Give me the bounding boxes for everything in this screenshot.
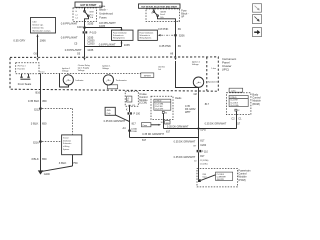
svg-text:Wiring Systems: Wiring Systems bbox=[140, 37, 152, 40]
BCM drop wire bbox=[236, 111, 238, 128]
wire 0.8 PNK 39 bbox=[175, 21, 177, 57]
svg-text:(BCM): (BCM) bbox=[252, 102, 260, 106]
svg-text:650: 650 bbox=[42, 122, 47, 126]
svg-text:B4: B4 bbox=[165, 112, 167, 114]
svg-text:C3: C3 bbox=[177, 21, 179, 23]
svg-text:C1-19 BLU: C1-19 BLU bbox=[217, 174, 224, 176]
PCM input pin bbox=[198, 179, 201, 182]
UI button zoom in bbox=[253, 15, 262, 24]
GRY wire arrow into sub box bbox=[37, 58, 39, 61]
radio dashed box bbox=[151, 96, 173, 119]
svg-text:1035: 1035 bbox=[87, 22, 94, 26]
svg-text:0.8 PPL/WHT: 0.8 PPL/WHT bbox=[65, 48, 82, 52]
internal dashed bus bbox=[39, 73, 141, 75]
svg-text:817: 817 bbox=[205, 103, 210, 106]
svg-text:C200B: C200B bbox=[131, 131, 138, 133]
svg-text:1035: 1035 bbox=[124, 43, 131, 47]
header HOT IN START bbox=[75, 2, 102, 7]
svg-text:0.8 PPL/WHT: 0.8 PPL/WHT bbox=[99, 43, 116, 47]
svg-text:0.35 PNK: 0.35 PNK bbox=[159, 44, 171, 48]
svg-text:0.35 DK GRN/WHT: 0.35 DK GRN/WHT bbox=[174, 140, 196, 143]
cruise control module dashed box bbox=[125, 91, 138, 106]
svg-text:0.35 DK GRN/WHT: 0.35 DK GRN/WHT bbox=[104, 120, 126, 123]
svg-text:817: 817 bbox=[132, 122, 137, 125]
speedometer supply loop bbox=[176, 61, 199, 88]
svg-text:39: 39 bbox=[178, 27, 182, 31]
svg-text:C-4: C-4 bbox=[75, 18, 78, 20]
ground G200 bbox=[38, 170, 44, 174]
svg-text:3 BLK: 3 BLK bbox=[31, 122, 39, 126]
IPC dimmer sub box bbox=[16, 63, 39, 74]
svg-text:Radio: Radio bbox=[175, 98, 182, 100]
svg-text:B16: B16 bbox=[36, 92, 41, 95]
splice junction bbox=[83, 26, 86, 29]
fuse block underhood dashed box bbox=[73, 8, 97, 22]
UI button zoom out bbox=[253, 4, 262, 13]
fuse GAGES 10A bbox=[153, 8, 155, 11]
lower VSS wire to junction bbox=[130, 137, 199, 139]
svg-text:Voltage: Voltage bbox=[62, 70, 70, 73]
svg-text:D2: D2 bbox=[238, 110, 240, 112]
4WD note box bbox=[105, 107, 115, 115]
wire 0.35 DK GRN/WHT 817 from speedometer bbox=[198, 88, 200, 150]
svg-text:Speedometer: Speedometer bbox=[208, 81, 219, 84]
svg-text:S212: S212 bbox=[34, 108, 40, 111]
svg-text:0.35 DK GRN/WHT: 0.35 DK GRN/WHT bbox=[205, 122, 227, 125]
svg-text:(PCM): (PCM) bbox=[238, 178, 246, 182]
svg-text:S206: S206 bbox=[179, 34, 185, 37]
svg-text:817: 817 bbox=[142, 139, 147, 142]
svg-text:Fuse: Fuse bbox=[99, 4, 106, 8]
svg-text:Schematics in: Schematics in bbox=[113, 34, 124, 37]
svg-text:(CCM): (CCM) bbox=[139, 101, 147, 105]
svg-text:WHT: WHT bbox=[185, 111, 191, 114]
svg-text:Prem: Prem bbox=[143, 124, 148, 127]
connector P-100 lower bbox=[128, 112, 130, 114]
instrument panel cluster dashed box bbox=[10, 57, 218, 91]
splice S206 bbox=[174, 34, 177, 37]
CCM drop wire bbox=[129, 106, 131, 112]
svg-text:Tachometer: Tachometer bbox=[116, 79, 127, 82]
horizontal VSS bus wire bbox=[164, 128, 237, 130]
svg-text:Underhood: Underhood bbox=[99, 12, 113, 16]
svg-text:P 100: P 100 bbox=[134, 113, 141, 116]
svg-text:817: 817 bbox=[200, 139, 205, 142]
svg-text:(C2): (C2) bbox=[132, 105, 135, 107]
wire 0.8 PPL/WHT 1035 from fuse bbox=[84, 22, 86, 32]
svg-text:C255: C255 bbox=[231, 90, 236, 92]
svg-text:0.35 DK GRN/WHT: 0.35 DK GRN/WHT bbox=[142, 133, 164, 136]
svg-text:C1 (24 BL): C1 (24 BL) bbox=[200, 164, 208, 166]
splice S212 bbox=[39, 107, 42, 110]
svg-text:C200A: C200A bbox=[131, 127, 138, 130]
power distribution reference box 1 bbox=[112, 30, 134, 40]
header HOT IN RUN BULB TEST AND START bbox=[139, 4, 181, 8]
svg-text:4000 PPM: 4000 PPM bbox=[217, 179, 225, 181]
arrow into cluster bbox=[84, 58, 86, 61]
svg-text:0.8 PPL/WHT: 0.8 PPL/WHT bbox=[61, 22, 78, 26]
svg-text:P-100: P-100 bbox=[90, 32, 97, 35]
svg-text:C416: C416 bbox=[77, 26, 84, 29]
svg-text:Illumination Lamps: Illumination Lamps bbox=[32, 30, 51, 33]
splice S216 bbox=[39, 140, 42, 143]
svg-text:IPC Fuse 4: IPC Fuse 4 bbox=[18, 66, 26, 68]
svg-text:1 ohm: 1 ohm bbox=[211, 68, 216, 70]
svg-text:0.35 DK GRN/WHT: 0.35 DK GRN/WHT bbox=[174, 156, 196, 159]
svg-text:CONN ID: CONN ID bbox=[155, 101, 162, 103]
svg-text:Interior Lps: Interior Lps bbox=[32, 24, 44, 27]
svg-text:1035: 1035 bbox=[87, 48, 94, 52]
svg-text:B7: B7 bbox=[127, 100, 129, 102]
wire to PCM bbox=[198, 152, 200, 179]
svg-text:50: 50 bbox=[151, 12, 153, 14]
svg-text:817: 817 bbox=[166, 130, 171, 133]
svg-text:Block -: Block - bbox=[99, 8, 107, 12]
svg-text:C2 (24 WH): C2 (24 WH) bbox=[200, 160, 209, 162]
svg-text:C2-BRN/WHT: C2-BRN/WHT bbox=[217, 177, 226, 179]
svg-text:10: 10 bbox=[160, 122, 162, 124]
svg-text:C3=20 WHT: C3=20 WHT bbox=[155, 109, 163, 111]
ground distribution reference box bbox=[62, 135, 82, 155]
ground wire inside cluster bbox=[40, 74, 42, 171]
svg-text:3 BLK: 3 BLK bbox=[59, 161, 67, 165]
svg-text:I/P: I/P bbox=[181, 16, 184, 19]
svg-text:(IPC): (IPC) bbox=[222, 68, 229, 72]
fuse block IP dashed box bbox=[146, 9, 180, 22]
body control module dashed box bbox=[226, 93, 251, 115]
svg-text:C2=24 BLK: C2=24 BLK bbox=[230, 102, 238, 104]
inner dashed partition bbox=[206, 57, 208, 91]
svg-text:Power Distribution: Power Distribution bbox=[140, 31, 154, 34]
power distribution reference box 2 bbox=[138, 30, 157, 40]
splice S242 bbox=[197, 127, 199, 129]
radio drop wire bbox=[163, 113, 165, 128]
branch wire 0.8 PPL/WHT 1035 to power distribution 2 bbox=[85, 46, 122, 48]
svg-text:Voltage: Voltage bbox=[78, 69, 86, 72]
svg-text:P 110: P 110 bbox=[202, 150, 209, 153]
svg-text:Panel Dim: Panel Dim bbox=[18, 69, 26, 71]
svg-text:G8: G8 bbox=[193, 93, 197, 96]
wire continues bbox=[84, 34, 86, 58]
svg-text:650: 650 bbox=[42, 157, 47, 161]
svg-text:C1=24 WH: C1=24 WH bbox=[230, 100, 237, 102]
svg-text:0.35 BLK: 0.35 BLK bbox=[28, 99, 39, 103]
svg-text:750: 750 bbox=[73, 161, 78, 165]
svg-text:0.8 PPL/WHT: 0.8 PPL/WHT bbox=[61, 36, 78, 40]
svg-text:+D: +D bbox=[127, 98, 129, 100]
BCM top connector box bbox=[229, 88, 243, 92]
svg-text:450: 450 bbox=[42, 99, 47, 103]
svg-text:1005: 1005 bbox=[99, 24, 106, 28]
svg-text:3 BLK: 3 BLK bbox=[31, 157, 39, 161]
svg-text:IGN E: IGN E bbox=[89, 11, 93, 13]
svg-text:Voltage: Voltage bbox=[102, 67, 110, 70]
premium note box with arrow bbox=[142, 123, 151, 127]
svg-text:HOT IN RUN, BULB TEST AND STAR: HOT IN RUN, BULB TEST AND START bbox=[141, 5, 178, 8]
svg-text:S/PMTR: S/PMTR bbox=[144, 76, 152, 78]
svg-text:Ground: Ground bbox=[63, 138, 68, 140]
connector P-100 bbox=[83, 31, 85, 33]
svg-text:L-4: L-4 bbox=[75, 14, 77, 16]
svg-text:Fuse 4: Fuse 4 bbox=[160, 14, 165, 16]
powertrain control module dashed box bbox=[197, 169, 238, 187]
svg-text:Fuse: Fuse bbox=[90, 14, 94, 16]
svg-text:C200: C200 bbox=[200, 144, 207, 147]
odometer sub box bbox=[107, 85, 117, 89]
svg-text:I-4: I-4 bbox=[75, 11, 77, 13]
svg-text:Dimmer Sw: Dimmer Sw bbox=[32, 26, 44, 29]
svg-text:Only: Only bbox=[107, 113, 111, 115]
fuse IGN E 10A bbox=[84, 7, 86, 10]
svg-text:HOT IN START: HOT IN START bbox=[81, 4, 98, 7]
dash-dot reference arrow to S206 bbox=[158, 34, 161, 36]
svg-text:39: 39 bbox=[178, 44, 182, 48]
wire GRY circuit 1066 bbox=[37, 34, 39, 37]
svg-text:C2=22 BLK: C2=22 BLK bbox=[155, 106, 163, 108]
dashed link to ground distribution bbox=[72, 109, 74, 135]
svg-text:1066: 1066 bbox=[40, 39, 47, 43]
UI button next bbox=[253, 28, 262, 37]
svg-text:C2000: C2000 bbox=[87, 43, 95, 46]
svg-text:Schematics in: Schematics in bbox=[140, 34, 151, 37]
arrow into cluster bbox=[175, 58, 177, 61]
svg-text:Fuses: Fuses bbox=[99, 16, 107, 20]
svg-text:Power Distribution: Power Distribution bbox=[113, 31, 127, 34]
svg-text:Front Seats: Front Seats bbox=[18, 82, 32, 86]
buffer label box bbox=[141, 73, 154, 78]
wire 3 BLK 750 bbox=[72, 155, 74, 166]
svg-text:817: 817 bbox=[200, 155, 205, 158]
svg-text:S216: S216 bbox=[33, 141, 39, 144]
connector P 110 bbox=[197, 150, 199, 152]
interior lamps dimmer box bbox=[31, 18, 56, 34]
svg-text:Voltage: Voltage bbox=[192, 63, 200, 66]
svg-text:4WD: 4WD bbox=[107, 110, 112, 112]
svg-text:Input: Input bbox=[202, 176, 206, 179]
svg-text:0.35 GRY: 0.35 GRY bbox=[13, 39, 25, 43]
svg-text:in Wiring: in Wiring bbox=[63, 146, 69, 148]
svg-text:G200: G200 bbox=[44, 173, 51, 176]
lamp component bbox=[21, 74, 23, 77]
svg-text:CONN ID: CONN ID bbox=[230, 97, 237, 99]
branch wire 0.8 PPL/WHT 1005 to power distribution bbox=[85, 28, 122, 30]
svg-text:Wiring Systems: Wiring Systems bbox=[113, 37, 125, 40]
svg-text:Indicator: Indicator bbox=[76, 79, 84, 82]
svg-text:0.35 DK GRN/WHT: 0.35 DK GRN/WHT bbox=[167, 126, 189, 129]
svg-text:0.8 PNK: 0.8 PNK bbox=[158, 27, 168, 31]
